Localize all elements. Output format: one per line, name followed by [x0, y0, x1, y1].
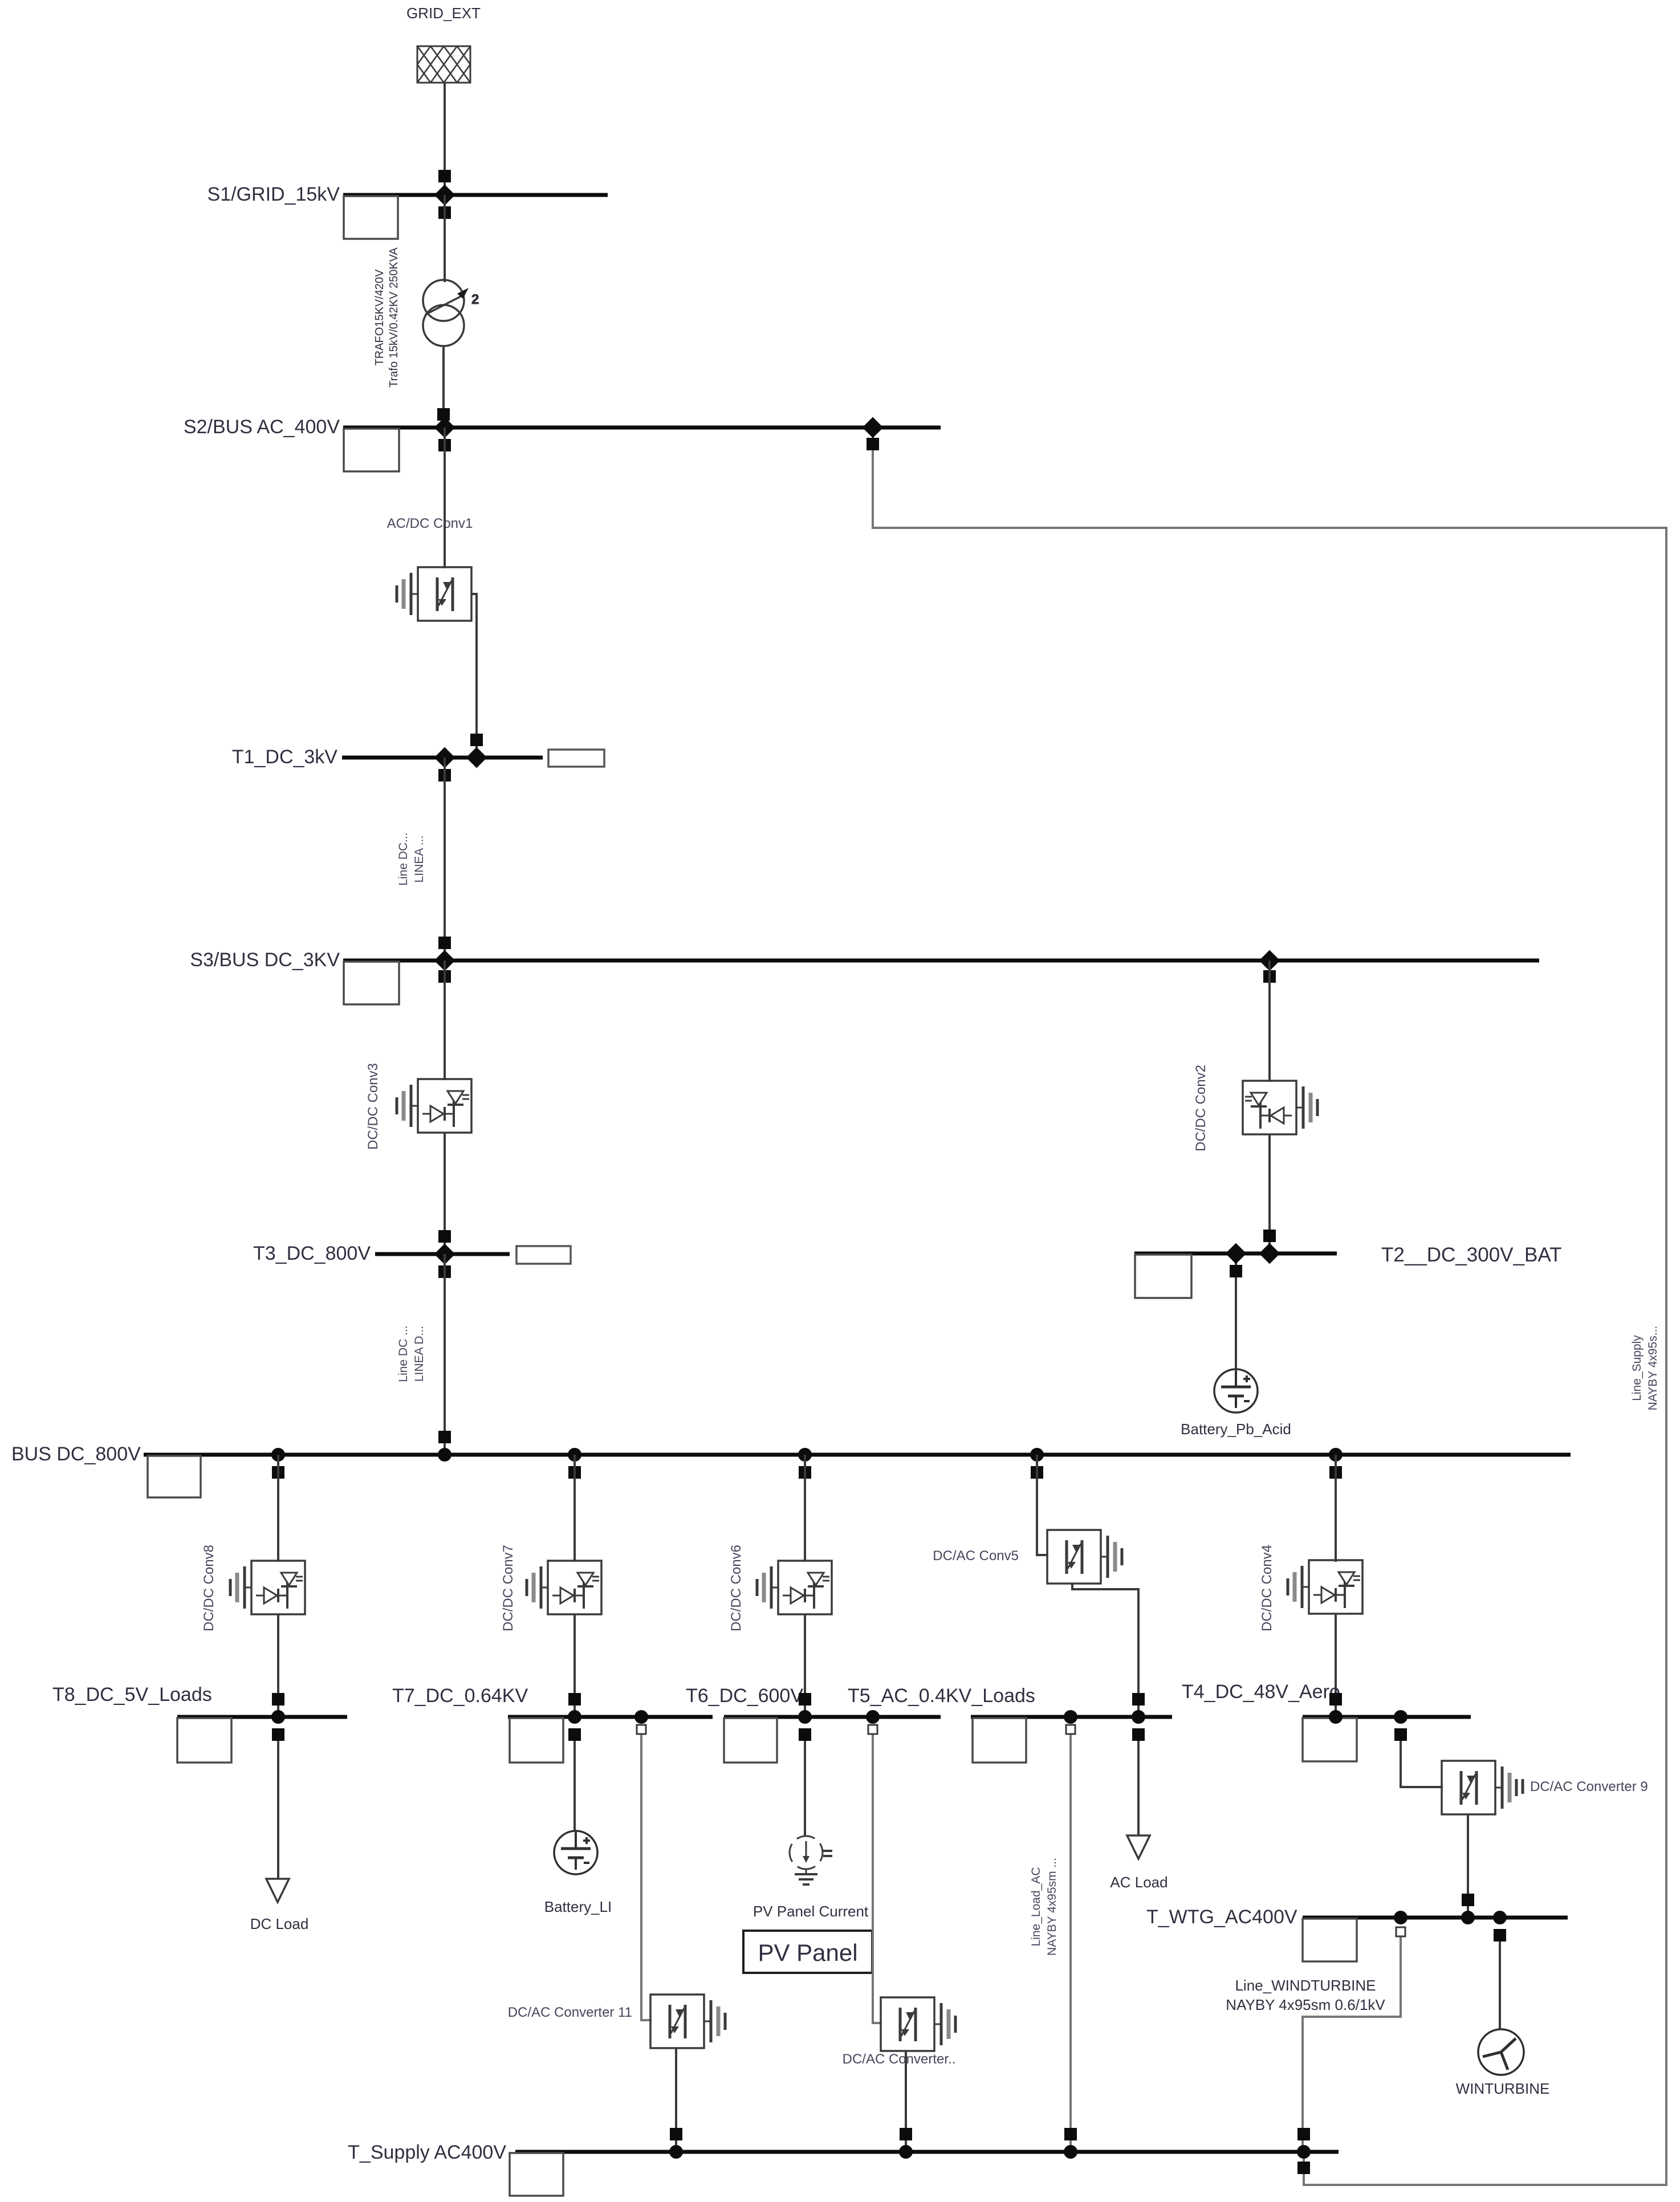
line Line_Supply NAYBY label: [1630, 1326, 1659, 1411]
svg-text:DC/DC Conv4: DC/DC Conv4: [1259, 1545, 1275, 1631]
svg-text:Line DC...: Line DC...: [397, 832, 410, 885]
line Line DC / LINEA label: [397, 832, 426, 885]
bus T8_DC_5V_Loads: [52, 1684, 347, 1763]
svg-text:PV Panel: PV Panel: [758, 1939, 857, 1966]
terminal above T7: [568, 1693, 581, 1706]
wire Line_Load_AC T5 to T_Supply: [1069, 1734, 1072, 2152]
svg-text:NAYBY 4x95s...: NAYBY 4x95s...: [1646, 1326, 1659, 1411]
line Line_Load_AC NAYBY label: [1030, 1858, 1059, 1956]
wire Conv5 to T5: [1072, 1584, 1138, 1717]
wire T6 to PV source: [804, 1735, 806, 1837]
label DC/DC Conv7: [501, 1545, 516, 1631]
open terminal below T_WTG: [1396, 1927, 1405, 1936]
svg-text:AC/DC Conv1: AC/DC Conv1: [387, 516, 473, 531]
converter U6 DC/DC Conv6: [757, 1561, 832, 1614]
wire T7 to DC/AC Converter 11: [641, 1734, 652, 2020]
terminal below T3: [438, 1265, 451, 1278]
external grid GRID_EXT: [417, 46, 470, 83]
load AC Load arrow: [1110, 1835, 1168, 1891]
terminal below bus conv8: [272, 1466, 284, 1479]
svg-text:WINTURBINE: WINTURBINE: [1456, 2080, 1550, 2097]
junction T7 line to converter 11: [634, 1710, 648, 1724]
bus T_WTG_AC400V: [1146, 1906, 1568, 1961]
junction T5 ac load: [1132, 1710, 1145, 1724]
junction T_Supply line load: [1064, 2145, 1077, 2159]
terminal above T4: [1329, 1693, 1342, 1706]
transformer TRAFO 15kV/0.42kV label: [373, 247, 400, 387]
wire Conv4 to T4: [1335, 1614, 1337, 1717]
junction T4 conv4: [1329, 1710, 1343, 1724]
junction T6 line to converter 12: [866, 1710, 880, 1724]
svg-text:DC Load: DC Load: [250, 1915, 309, 1932]
label AC/DC Conv1: [387, 516, 473, 531]
svg-text:DC/DC Conv3: DC/DC Conv3: [365, 1063, 381, 1150]
junction S2 at Line_Supply: [863, 417, 884, 438]
wire Conv2 to T2: [1268, 1134, 1271, 1253]
wire T_WTG to wind turbine: [1499, 1935, 1501, 2030]
terminal above S1: [438, 170, 451, 182]
svg-text:DC/DC Conv6: DC/DC Conv6: [729, 1545, 744, 1631]
label DC/AC Converter 9: [1523, 1779, 1648, 1794]
junction BUS DC_800V feeder T3: [438, 1448, 451, 1462]
wire Converter 9 to T_WTG: [1467, 1814, 1469, 1918]
terminal above T_Supply wind line: [1297, 2128, 1310, 2140]
open terminal below T6: [868, 1725, 877, 1734]
svg-text:Line DC ...: Line DC ...: [397, 1325, 410, 1382]
node GRID_EXT label: [406, 5, 481, 22]
junction T_Supply supply line: [1297, 2145, 1311, 2159]
terminal below S3 right: [1263, 970, 1276, 983]
svg-text:DC/DC Conv8: DC/DC Conv8: [201, 1545, 217, 1631]
junction T7 conv7: [568, 1710, 581, 1724]
junction BUS DC_800V conv7: [568, 1448, 581, 1462]
wire T8 to DC Load: [277, 1735, 279, 1879]
wire Conv1 to T1: [471, 594, 477, 758]
terminal below S2 Line_Supply: [867, 438, 879, 450]
svg-text:DC/AC Converter..: DC/AC Converter..: [843, 2052, 956, 2067]
svg-text:PV Panel Current: PV Panel Current: [753, 1903, 869, 1920]
converter U3 DC/DC Conv3: [397, 1079, 471, 1133]
junction on S1: [434, 185, 455, 206]
junction T4 to converter 9: [1394, 1710, 1408, 1724]
bus T7_DC_0.64KV: [392, 1685, 713, 1763]
transformer T1 2-winding: [423, 280, 479, 346]
bus T1_DC_3kV: [232, 746, 604, 768]
battery Battery_Pb_Acid: [1181, 1369, 1291, 1438]
junction BUS DC_800V conv4: [1329, 1448, 1343, 1462]
wire T4 to DC/AC Converter 9: [1401, 1735, 1443, 1787]
junction S3 right feeder: [1259, 950, 1280, 971]
wire T7 to Battery_LI: [573, 1735, 576, 1831]
junction T5 line load: [1064, 1710, 1077, 1724]
junction T2 conv2: [1259, 1243, 1280, 1264]
terminal below T6: [799, 1728, 811, 1741]
wire Converter 12 to T_Supply: [905, 2051, 907, 2152]
wire transformer to S2: [442, 346, 445, 428]
terminal above BUS DC_800V: [438, 1431, 451, 1443]
line Line DC / LINEA D label 2: [397, 1325, 426, 1382]
label DC/DC Conv3: [365, 1063, 381, 1150]
terminal below bus conv4: [1329, 1466, 1342, 1479]
label DC/DC Conv8: [201, 1545, 217, 1631]
load DC Load arrow: [250, 1879, 309, 1932]
converter U2 DC/DC Conv2: [1243, 1081, 1317, 1134]
svg-text:NAYBY 4x95sm 0.6/1kV: NAYBY 4x95sm 0.6/1kV: [1226, 1996, 1385, 2013]
svg-text:S3/BUS DC_3KV: S3/BUS DC_3KV: [190, 949, 340, 971]
converter U8 DC/DC Conv8: [230, 1561, 305, 1614]
svg-text:BUS DC_800V: BUS DC_800V: [11, 1443, 141, 1465]
converter U4 DC/DC Conv4: [1288, 1560, 1362, 1614]
svg-text:S1/GRID_15kV: S1/GRID_15kV: [208, 184, 340, 205]
wire T6 to DC/AC Converter 12: [873, 1734, 882, 2023]
open terminal below T7: [637, 1725, 646, 1734]
svg-text:Trafo 15kV/0.42KV 250KVA: Trafo 15kV/0.42KV 250KVA: [388, 247, 400, 387]
terminal above S2: [437, 408, 450, 421]
terminal above T_Supply conv11: [670, 2128, 682, 2140]
bus T2__DC_300V_BAT: [1134, 1244, 1561, 1298]
generator WINTURBINE: [1456, 2029, 1550, 2097]
svg-text:Battery_Pb_Acid: Battery_Pb_Acid: [1181, 1420, 1291, 1438]
label DC/DC Conv4: [1259, 1545, 1275, 1631]
converter U12 DC/AC Converter: [881, 1997, 955, 2051]
svg-text:AC Load: AC Load: [1110, 1874, 1168, 1891]
svg-text:TRAFO15KV/420V: TRAFO15KV/420V: [373, 269, 386, 366]
svg-text:T1_DC_3kV: T1_DC_3kV: [232, 746, 338, 768]
svg-text:T5_AC_0.4KV_Loads: T5_AC_0.4KV_Loads: [848, 1685, 1035, 1707]
terminal below T_Supply supply line: [1297, 2162, 1310, 2174]
junction T_Supply conv12: [899, 2145, 913, 2159]
wire bus to Conv7: [573, 1455, 576, 1562]
svg-text:Line_Load_AC: Line_Load_AC: [1030, 1867, 1043, 1947]
label DC/DC Conv6: [729, 1545, 744, 1631]
terminal below T8: [272, 1728, 284, 1741]
terminal above T1: [470, 734, 483, 746]
svg-text:Line_Supply: Line_Supply: [1630, 1335, 1644, 1401]
wire Conv3 to T3: [444, 1133, 446, 1254]
wire T2 to battery: [1235, 1253, 1237, 1369]
terminal below bus conv6: [799, 1466, 811, 1479]
wire Line_Supply S2 to T_Supply (right edge loop): [873, 428, 1666, 2185]
bus BUS DC_800V: [11, 1443, 1571, 1497]
svg-text:DC/AC Conv5: DC/AC Conv5: [933, 1548, 1019, 1564]
bus T_Supply AC400V: [348, 2142, 1339, 2196]
converter U11 DC/AC Converter 11: [650, 1995, 725, 2048]
label box PV Panel: [743, 1931, 872, 1973]
source PV Panel Current: [753, 1836, 869, 1920]
svg-text:T7_DC_0.64KV: T7_DC_0.64KV: [392, 1685, 528, 1707]
terminal above T3: [438, 1230, 451, 1243]
bus T3_DC_800V: [253, 1243, 571, 1264]
wire bus to Conv6: [804, 1455, 806, 1562]
terminal above T8: [272, 1693, 284, 1706]
wire grid to S1: [444, 83, 446, 195]
wire S1 to transformer: [444, 195, 446, 282]
wire Converter 11 to T_Supply: [675, 2048, 677, 2152]
wire bus to Conv4: [1335, 1455, 1337, 1562]
converter U9 DC/AC Converter 9: [1442, 1761, 1516, 1814]
junction BUS DC_800V conv8: [271, 1448, 285, 1462]
junction T_WTG conv9: [1461, 1911, 1475, 1924]
wire bus to Conv8: [277, 1455, 279, 1562]
converter U5 DC/AC Conv5: [1047, 1530, 1122, 1584]
svg-text:T2__DC_300V_BAT: T2__DC_300V_BAT: [1381, 1244, 1561, 1266]
wire S3 to Conv3: [444, 960, 446, 1080]
terminal below S1: [438, 206, 451, 219]
junction S3 left feeder: [434, 950, 455, 971]
open terminal below T5: [1066, 1725, 1075, 1734]
wire S3 to Conv2: [1268, 960, 1271, 1082]
bus T4_DC_48V_Aero: [1182, 1681, 1471, 1761]
svg-text:DC/DC Conv2: DC/DC Conv2: [1193, 1065, 1209, 1151]
terminal above T5 conv5: [1132, 1693, 1145, 1706]
junction T3: [434, 1244, 455, 1265]
svg-text:2: 2: [471, 292, 479, 307]
terminal below T2: [1230, 1265, 1242, 1277]
svg-text:T_WTG_AC400V: T_WTG_AC400V: [1146, 1906, 1297, 1928]
converter U1 AC/DC Conv1: [397, 567, 471, 621]
line Line_WINDTURBINE NAYBY label: [1226, 1977, 1385, 2013]
label DC/AC Converter 11: [508, 2005, 632, 2020]
svg-text:T3_DC_800V: T3_DC_800V: [253, 1243, 371, 1264]
wire T3 to BUS DC_800V: [444, 1254, 446, 1455]
label DC/DC Conv2: [1193, 1065, 1209, 1151]
bus S3/BUS DC_3KV: [190, 949, 1539, 1004]
terminal above T_WTG conv9: [1462, 1894, 1474, 1906]
junction T6 conv6: [798, 1710, 812, 1724]
wire T5 to AC Load: [1137, 1735, 1140, 1835]
terminal below T1: [438, 769, 451, 782]
label DC/AC Converter..: [843, 2052, 956, 2067]
junction T_WTG turbine: [1493, 1911, 1507, 1924]
terminal below bus conv5: [1031, 1466, 1043, 1479]
bus T6_DC_600V: [686, 1685, 941, 1763]
svg-text:NAYBY 4x95sm ...: NAYBY 4x95sm ...: [1046, 1858, 1059, 1956]
svg-text:DC/AC Converter 11: DC/AC Converter 11: [508, 2005, 632, 2020]
svg-text:T8_DC_5V_Loads: T8_DC_5V_Loads: [52, 1684, 212, 1706]
label DC/AC Conv5: [933, 1548, 1019, 1564]
wire S2 to converter AC/DC Conv1: [444, 428, 446, 568]
wire T1 to S3: [444, 758, 446, 960]
wire Conv7 to T7: [573, 1614, 576, 1717]
junction T1 feeder: [434, 747, 455, 768]
terminal above T6: [799, 1693, 811, 1706]
terminal above T2: [1263, 1230, 1276, 1242]
bus T5_AC_0.4KV_Loads: [848, 1685, 1172, 1763]
junction BUS DC_800V conv5: [1030, 1448, 1044, 1462]
converter U7 DC/DC Conv7: [527, 1561, 601, 1614]
svg-text:LINEA ...: LINEA ...: [413, 836, 426, 883]
svg-text:Line_WINDTURBINE: Line_WINDTURBINE: [1235, 1977, 1376, 1994]
terminal above S3: [438, 937, 451, 949]
wire Conv8 to T8: [277, 1614, 279, 1717]
terminal below S3: [438, 970, 451, 983]
junction BUS DC_800V conv6: [798, 1448, 812, 1462]
wire bus to Conv5: [1037, 1455, 1048, 1555]
bus S2/BUS AC_400V: [184, 416, 941, 471]
junction T_Supply conv11: [669, 2145, 683, 2159]
svg-text:GRID_EXT: GRID_EXT: [406, 5, 481, 22]
wire Line_WINDTURBINE to T_Supply: [1303, 1936, 1401, 2152]
terminal below T7: [568, 1728, 581, 1741]
svg-text:S2/BUS AC_400V: S2/BUS AC_400V: [184, 416, 340, 438]
svg-text:LINEA D...: LINEA D...: [413, 1326, 426, 1382]
svg-text:T4_DC_48V_Aero: T4_DC_48V_Aero: [1182, 1681, 1340, 1703]
bus S1/GRID_15kV: [208, 184, 608, 239]
junction S2 at feeder: [434, 417, 455, 438]
svg-text:T_Supply AC400V: T_Supply AC400V: [348, 2142, 506, 2163]
wire Conv6 to T6: [804, 1614, 806, 1717]
svg-text:DC/DC Conv7: DC/DC Conv7: [501, 1545, 516, 1631]
battery Battery_LI: [544, 1831, 612, 1915]
svg-text:T6_DC_600V: T6_DC_600V: [686, 1685, 803, 1707]
svg-text:DC/AC Converter 9: DC/AC Converter 9: [1530, 1779, 1648, 1794]
svg-text:Battery_LI: Battery_LI: [544, 1898, 612, 1915]
terminal below S2: [438, 439, 451, 451]
terminal below bus conv7: [568, 1466, 581, 1479]
junction T8: [271, 1710, 285, 1724]
terminal below T5: [1132, 1728, 1145, 1741]
terminal above T_Supply line load: [1064, 2128, 1077, 2140]
terminal above T_Supply conv12: [900, 2128, 912, 2140]
junction T2 battery: [1226, 1243, 1247, 1264]
terminal below T4: [1394, 1728, 1407, 1741]
junction T_WTG wind line: [1394, 1911, 1408, 1924]
junction T1 conv1: [466, 747, 487, 768]
terminal below T_WTG turbine: [1494, 1929, 1506, 1941]
